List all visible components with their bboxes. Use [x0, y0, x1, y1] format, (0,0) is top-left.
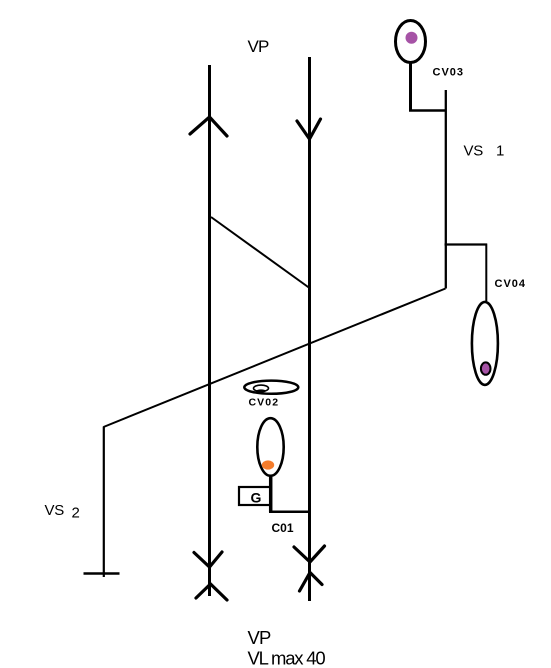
signal CV03 purple lamp — [406, 32, 418, 44]
track 1 bottom chevron inverted — [196, 584, 227, 600]
track 2 down arrowhead — [297, 119, 321, 139]
svg-text:VL max 40: VL max 40 — [248, 648, 326, 668]
svg-text:VP: VP — [248, 627, 272, 648]
track 1 bottom chevron V — [194, 552, 222, 567]
svg-text:2: 2 — [72, 505, 80, 522]
signal CV02 inner dark blob — [256, 389, 266, 392]
signal CV03 head — [396, 21, 426, 63]
track 1 up arrowhead — [190, 117, 227, 136]
wire: elbow CV03 to VS1 — [409, 109, 447, 112]
svg-text:C01: C01 — [272, 521, 294, 535]
track 2 bottom chevron inverted — [300, 573, 323, 592]
svg-text:CV02: CV02 — [249, 397, 280, 409]
wire: CV04 mast — [485, 244, 487, 302]
track 2 bottom chevron V — [294, 546, 325, 562]
wire: track 1 left vertical — [208, 65, 211, 596]
wire: VS2 vertical — [103, 427, 105, 578]
signal CV02 head outer — [244, 381, 298, 394]
signal CV04 head — [472, 302, 498, 385]
wire: crossover diagonal short — [211, 217, 310, 288]
wire: elbow VS1 to CV04 — [445, 243, 488, 245]
svg-text:VS: VS — [464, 143, 484, 160]
G box — [239, 487, 271, 505]
svg-text:G: G — [251, 490, 262, 506]
svg-text:VS: VS — [45, 502, 65, 519]
signal CV02 inner lens — [254, 385, 269, 391]
VS2 end stop bar — [84, 572, 120, 575]
signal C01 head — [257, 418, 283, 476]
svg-text:VP: VP — [248, 37, 270, 56]
wire: crossover diagonal long — [104, 289, 446, 428]
wire: VS1 vertical — [445, 90, 447, 289]
wire: C01 mast — [269, 476, 273, 512]
wire: CV03 mast — [409, 63, 412, 112]
wire: G box to track 2 — [269, 510, 311, 513]
svg-text:CV04: CV04 — [495, 278, 527, 290]
svg-text:1: 1 — [496, 143, 504, 160]
wire: track 2 right vertical — [308, 57, 311, 601]
svg-text:CV03: CV03 — [433, 67, 465, 79]
signal C01 orange lamp — [262, 460, 274, 469]
signal CV04 purple lamp — [481, 362, 491, 374]
